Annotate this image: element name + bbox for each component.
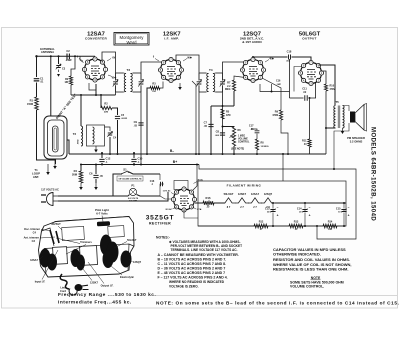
svg-text:117 VOLTS AC: 117 VOLTS AC (41, 188, 59, 192)
svg-text:D – 36 VOLTS AC ACROSS PINS 2: D – 36 VOLTS AC ACROSS PINS 2 AND 7 (158, 267, 226, 271)
chassis back rail (55, 217, 130, 227)
T5 ground (342, 128, 344, 131)
chassis tube blob 50L6GT (100, 235, 112, 256)
wire loop to B- (67, 140, 69, 154)
svg-text:S1: S1 (123, 168, 127, 172)
volume control R6 (232, 127, 235, 146)
svg-text:12SK7: 12SK7 (238, 192, 247, 196)
node (50, 55, 52, 57)
svg-text:C2: C2 (66, 49, 70, 53)
svg-text:NOTE: On some sets the B– lea: NOTE: On some sets the B– lead of the se… (156, 301, 400, 306)
speaker return wire (334, 123, 349, 169)
svg-text:T5: T5 (335, 100, 339, 104)
Montgomery Ward logo box (114, 33, 149, 46)
line wire bottom (58, 192, 168, 201)
resistor R2 (69, 76, 72, 85)
svg-text:C9: C9 (134, 120, 138, 124)
svg-text:.05MF: .05MF (65, 60, 72, 62)
wire rail to loop (50, 56, 52, 116)
svg-text:OUTPUT: OUTPUT (302, 36, 317, 40)
rail junction dots (109, 153, 111, 155)
wire rail V1 pin stub (80, 56, 84, 62)
wire (214, 202, 225, 204)
wire R2 down (70, 85, 72, 95)
capacitor C13 (272, 203, 274, 209)
svg-text:35Z5GT: 35Z5GT (146, 215, 174, 222)
section outer wire (197, 164, 199, 166)
svg-text:12SQ7: 12SQ7 (133, 260, 142, 264)
svg-text:MEG: MEG (225, 88, 231, 91)
resistor R14 (323, 224, 337, 228)
svg-text:50L6GT: 50L6GT (127, 238, 137, 242)
capacitor C18 coupling (252, 57, 254, 60)
chassis IF can left (53, 247, 68, 265)
B+ rail (81, 164, 199, 166)
svg-text:117V AC: 117V AC (163, 190, 171, 193)
svg-text:+: + (277, 214, 279, 218)
svg-text:C13: C13 (265, 208, 270, 211)
antenna terminal (35, 55, 37, 57)
capacitor C2 (67, 54, 69, 60)
osc box (87, 125, 105, 146)
svg-text:150M: 150M (27, 103, 33, 106)
junction dots filament (272, 202, 274, 204)
svg-text:22M: 22M (104, 112, 108, 114)
outer loop wire (199, 165, 356, 240)
svg-text:12 MEG: 12 MEG (261, 146, 269, 148)
svg-text:Trimmers: Trimmers (80, 240, 92, 244)
svg-text:R16: R16 (206, 196, 211, 200)
svg-text:R14: R14 (328, 221, 333, 224)
svg-text:PM SPEAKER: PM SPEAKER (347, 136, 365, 140)
wire (112, 108, 118, 115)
svg-text:ANT.: ANT. (33, 175, 39, 179)
wire V1 pins down (95, 84, 97, 95)
wire P1 (128, 195, 130, 197)
svg-text:OTHERWISE INDICATED.: OTHERWISE INDICATED. (273, 251, 321, 256)
line plug (53, 196, 58, 201)
capacitor C14 (304, 203, 306, 209)
svg-text:C12: C12 (106, 157, 111, 161)
resistor R1 (35, 97, 39, 110)
svg-text:VOLTAGE IS ZERO.: VOLTAGE IS ZERO. (169, 284, 199, 288)
svg-text:NOTE: NOTE (311, 276, 321, 280)
svg-text:CONTROL: CONTROL (238, 142, 250, 144)
wire T3 right down (140, 92, 142, 165)
svg-text:–: – (348, 206, 350, 210)
svg-text:–: – (277, 206, 279, 210)
rect tube bottom wire (184, 210, 198, 218)
antenna wire (36, 56, 38, 77)
svg-text:1 MEG: 1 MEG (238, 136, 245, 138)
wire (337, 225, 346, 227)
svg-text:6-7 Volts: 6-7 Volts (96, 212, 108, 216)
osc coil ground (95, 146, 97, 150)
capacitor C5 (115, 116, 120, 118)
svg-text:C4: C4 (33, 230, 37, 234)
svg-text:FILAMENT WIRING: FILAMENT WIRING (227, 184, 262, 188)
wire R3 right (160, 82, 163, 89)
svg-text:Ant. trimmer: Ant. trimmer (24, 236, 39, 240)
wire to tube pins (160, 184, 164, 196)
svg-text:20M: 20M (72, 173, 77, 177)
wire (117, 120, 119, 153)
svg-text:Osc. trimmer: Osc. trimmer (24, 227, 40, 231)
svg-text:Intermediate Freq...455 kc.: Intermediate Freq...455 kc. (58, 300, 132, 306)
chassis tube blob 12SA7 (40, 249, 51, 268)
svg-text:CONVERTER: CONVERTER (85, 36, 108, 40)
pilot lamp P1 (129, 188, 136, 195)
chassis trimmer screws (50, 230, 59, 244)
resistor R7 (233, 91, 235, 106)
svg-text:T3: T3 (126, 68, 130, 72)
resistor R12 (254, 224, 268, 228)
capacitor C15 (343, 203, 345, 209)
wire V3 cathode run (260, 84, 290, 92)
speaker (350, 112, 355, 123)
svg-text:A – CANNOT BE MEASURED WITH VO: A – CANNOT BE MEASURED WITH VOLTMETER. (158, 253, 239, 257)
svg-text:T2: T2 (73, 132, 77, 136)
svg-text:.00025: .00025 (121, 118, 128, 120)
tube V5 35Z5GT (174, 189, 195, 210)
svg-text:B+: B+ (173, 160, 177, 164)
bottom rule (152, 295, 397, 297)
wire (80, 95, 82, 126)
svg-text:470M: 470M (330, 88, 336, 91)
svg-text:C15: C15 (336, 208, 341, 211)
svg-text:C10: C10 (138, 157, 143, 161)
wire V1 plate to T3 (102, 52, 116, 73)
svg-text:I.F. AMP.: I.F. AMP. (164, 36, 179, 40)
svg-text:–: – (309, 206, 311, 210)
wire C18 drop (289, 59, 291, 98)
bottom rail (198, 225, 254, 227)
svg-text:.0002: .0002 (78, 139, 80, 145)
resistor R5 (221, 109, 224, 119)
resistor R10 (321, 71, 327, 84)
switch S1 (113, 174, 120, 196)
tube V3 12SQ7 (243, 60, 264, 81)
B- rail (69, 153, 326, 155)
resistor R16 (203, 201, 214, 205)
pin voltage arrows V3 (265, 60, 269, 63)
svg-text:3.2 OHMS: 3.2 OHMS (350, 139, 363, 143)
capacitor C9 (138, 123, 143, 125)
svg-text:T4: T4 (209, 68, 213, 72)
shell box (174, 181, 188, 190)
wire T5 primary bottom (326, 127, 336, 129)
capacitor C6 (95, 165, 97, 175)
svg-text:C17: C17 (249, 125, 254, 128)
resistor R9 (262, 78, 281, 110)
svg-text:35Z5GT: 35Z5GT (51, 222, 61, 226)
svg-text:47M: 47M (226, 114, 231, 117)
svg-text:C8: C8 (216, 130, 220, 134)
svg-text:C7: C7 (204, 121, 208, 125)
filament box (198, 181, 346, 226)
svg-text:NOTES:-: NOTES:- (156, 235, 170, 239)
wire V2 plate to T4 (176, 55, 199, 73)
svg-text:P1: P1 (131, 184, 135, 188)
svg-text:NO AC: NO AC (166, 208, 173, 211)
svg-text:C6: C6 (89, 172, 93, 176)
trimmer C3 (58, 56, 60, 64)
svg-text:R12: R12 (259, 221, 264, 224)
svg-text:C3: C3 (32, 239, 36, 243)
chassis outline (39, 217, 135, 278)
svg-text:117✱: 117✱ (197, 208, 202, 211)
wire R2 feed (71, 56, 75, 76)
svg-text:Output I.F.: Output I.F. (101, 284, 114, 288)
resistor R3 (150, 86, 160, 89)
wire T4 to diode (223, 61, 245, 73)
capacitor C10 (133, 153, 135, 158)
svg-text:TERMINALS. LINE VOLTAGE 117 VO: TERMINALS. LINE VOLTAGE 117 VOLTS AC. (171, 248, 238, 252)
svg-text:Input I.F.: Input I.F. (35, 280, 46, 284)
svg-text:C – 11 VOLTS AC ACROSS PINS 7: C – 11 VOLTS AC ACROSS PINS 7 AND 8. (158, 262, 227, 266)
wire (268, 225, 289, 227)
B- drop wire (282, 154, 284, 181)
resistor R2 osc (100, 95, 102, 108)
cathode ground arrow (179, 83, 181, 87)
wire R3 left (147, 88, 150, 153)
wire (105, 127, 111, 131)
wire T4 right down (222, 92, 224, 153)
chassis pilot bracket (97, 221, 110, 226)
volume feed wire (223, 126, 235, 129)
capacitor C12 (101, 153, 103, 158)
tube V4 50L6GT (301, 63, 322, 84)
osc coil T2 left winding (81, 126, 83, 146)
wire T3 left bottom (115, 92, 117, 95)
svg-text:R4: R4 (74, 169, 78, 173)
wire R7 top (234, 76, 245, 80)
svg-text:C18: C18 (287, 50, 292, 54)
svg-text:12SK7: 12SK7 (90, 281, 98, 285)
filament line (195, 202, 203, 204)
svg-text:12SA7: 12SA7 (30, 258, 38, 262)
svg-text:& 1ST AUDIO: & 1ST AUDIO (242, 40, 262, 44)
wire V2 plate down (192, 81, 196, 153)
resistor R4 (80, 165, 82, 172)
svg-text:2 7: 2 7 (253, 206, 257, 209)
filament tubes (222, 198, 236, 203)
capacitor C7 (208, 124, 213, 126)
tube V1 12SA7 (85, 59, 106, 80)
switch label (117, 176, 143, 181)
capacitor C17 and R8 (251, 129, 257, 130)
svg-text:2 7: 2 7 (240, 206, 244, 209)
loop antenna inner slot (53, 126, 59, 152)
svg-text:470M: 470M (272, 114, 278, 117)
osc node wire (71, 94, 116, 96)
wire C7 branch (210, 106, 212, 153)
wire (48, 159, 55, 161)
svg-text:40✱: 40✱ (269, 58, 274, 61)
svg-text:12SA7: 12SA7 (251, 192, 260, 196)
wire T4 left down (198, 92, 200, 153)
wire (36, 83, 38, 98)
pin voltage arrows V1 (107, 59, 111, 62)
capacitor C1 (34, 79, 40, 81)
chassis IF can right (80, 246, 98, 266)
top rail wire (37, 55, 96, 57)
svg-text:Electrolytic: Electrolytic (120, 275, 135, 279)
chassis tube blob 12SQ7 (121, 251, 132, 268)
B+ drop wire (193, 165, 197, 191)
svg-text:+: + (309, 214, 311, 218)
svg-text:90✱: 90✱ (187, 57, 192, 60)
wire (37, 110, 49, 160)
detector node wire (211, 105, 234, 107)
svg-text:C16: C16 (150, 180, 155, 183)
svg-text:.1MF: .1MF (276, 84, 282, 86)
capacitor C11 (290, 97, 304, 99)
svg-text:ANTENNA: ANTENNA (41, 50, 54, 54)
svg-text:B – 18 VOLTS AC ACROSS PINS 2: B – 18 VOLTS AC ACROSS PINS 2 AND 7. (158, 258, 227, 262)
wire T5 sec to speaker (343, 106, 350, 112)
trimmer C4 (108, 133, 112, 135)
svg-text:(SEE NOTE): (SEE NOTE) (231, 149, 244, 151)
svg-text:C14: C14 (297, 208, 302, 211)
tube V2 12SK7 (161, 60, 182, 81)
chassis top opening (62, 226, 85, 240)
svg-text:RESISTANCE IS LESS THAN ONE OH: RESISTANCE IS LESS THAN ONE OHM. (273, 266, 349, 271)
svg-text:VOLUME CONTROL.: VOLUME CONTROL. (290, 285, 324, 289)
loop antenna T1 outer (44, 116, 67, 159)
svg-text:12SQ7: 12SQ7 (264, 192, 273, 196)
svg-text:Ward: Ward (126, 40, 137, 45)
resistor R13 (289, 224, 303, 228)
svg-text:+: + (348, 214, 350, 218)
svg-text:1/4 AMP: 1/4 AMP (129, 200, 138, 203)
svg-text:C16: C16 (276, 80, 281, 83)
svg-text:B–: B– (170, 149, 174, 153)
ground (54, 160, 56, 166)
chassis line cord drawing (60, 274, 69, 289)
loop antenna T1 mid (48, 120, 65, 156)
capacitor C16 (159, 174, 161, 180)
svg-text:50L6GT: 50L6GT (224, 192, 234, 196)
svg-text:R10: R10 (330, 85, 335, 88)
svg-text:E – 48 VOLTS AC ACROSS PINS 2: E – 48 VOLTS AC ACROSS PINS 2 AND 7 (158, 271, 226, 275)
wire grid top (94, 57, 96, 59)
wire V4 plate to T5 (319, 65, 335, 105)
pin voltage arrows V2 (183, 59, 187, 62)
wire (303, 225, 323, 227)
line wire top (58, 195, 128, 197)
svg-text:VOLUME: VOLUME (238, 139, 248, 141)
capacitor C8 (220, 133, 225, 135)
svg-text:8 7: 8 7 (227, 206, 231, 209)
svg-text:RECTIFIER: RECTIFIER (149, 222, 171, 226)
svg-text:Frequency Range ....530 to 163: Frequency Range ....530 to 1630 kc. (58, 292, 156, 298)
svg-text:ON VOLUME CONTROL R6: ON VOLUME CONTROL R6 (118, 179, 141, 181)
svg-text:MODELS 64BR-1502B, 1504D: MODELS 64BR-1502B, 1504D (370, 127, 376, 221)
svg-text:R13: R13 (294, 221, 299, 224)
loop ground (55, 159, 57, 164)
wire T3 to V2 grid (141, 59, 171, 73)
svg-text:F – 117 VOLTS AC ACROSS PINS 2: F – 117 VOLTS AC ACROSS PINS 2 AND 4. (158, 276, 228, 280)
wire (233, 146, 235, 153)
osc coil T2 right winding (93, 127, 95, 144)
resistor R11 (309, 97, 311, 99)
chassis tube blob 12SK7 (71, 249, 81, 267)
